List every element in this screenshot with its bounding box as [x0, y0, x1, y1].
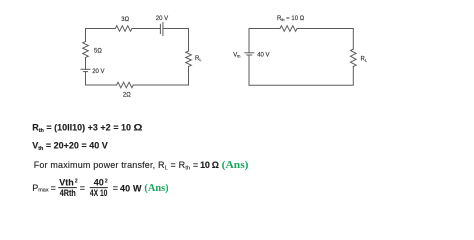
equation line 4: Pmax: [32, 177, 168, 198]
wire: right circuit top-left segment: [249, 29, 280, 53]
svg-text:40 W: 40 W: [120, 183, 142, 193]
equation line 3: For maximum power transfer: [34, 160, 249, 172]
svg-text:RL: RL: [361, 56, 367, 62]
wire: left circuit top-right segment: [163, 29, 189, 52]
svg-text:4Rth: 4Rth: [60, 188, 76, 198]
wire: left circuit right-bottom segment: [133, 67, 188, 86]
svg-text:For maximum power transfer, RL: For maximum power transfer, RL = Rth =: [34, 160, 199, 172]
svg-text:=: =: [51, 183, 56, 193]
svg-text:(Ans): (Ans): [144, 183, 168, 194]
svg-text:Rth = (10II10) +3 +2 = 10 Ω: Rth = (10II10) +3 +2 = 10 Ω: [32, 122, 142, 134]
wire: right circuit top-right segment: [297, 29, 353, 50]
svg-text:Pmax: Pmax: [32, 183, 49, 194]
resistor Rth (top wire, right circuit): [280, 26, 297, 32]
resistor 2ohm (bottom wire, left circuit): [117, 82, 134, 88]
svg-text:10 Ω: 10 Ω: [200, 160, 219, 170]
svg-text:2Ω: 2Ω: [123, 93, 131, 99]
svg-text:=: =: [113, 183, 118, 193]
svg-text:4X 10: 4X 10: [90, 188, 108, 198]
wire: left circuit top-left segment: [86, 29, 116, 42]
wire: right circuit right-bottom segment: [249, 55, 353, 85]
svg-text:20 V: 20 V: [92, 69, 104, 75]
resistor RL (right side, left circuit): [186, 51, 192, 67]
battery Vth 40V (left side, right circuit): [245, 53, 254, 55]
svg-text:Rth = 10 Ω: Rth = 10 Ω: [277, 16, 305, 22]
fraction 2 bar: [90, 187, 108, 189]
svg-text:5Ω: 5Ω: [94, 48, 102, 54]
wire: left circuit left middle segment: [85, 58, 87, 70]
battery 20V (left side, left circuit): [81, 69, 90, 71]
svg-text:20 V: 20 V: [156, 16, 168, 22]
svg-text:=: =: [80, 183, 85, 193]
resistor 3ohm (top wire, left circuit): [115, 26, 131, 32]
svg-text:(Ans): (Ans): [222, 160, 249, 171]
svg-text:RL: RL: [195, 56, 201, 62]
fraction 1 bar: [58, 187, 77, 189]
wire: left circuit bottom-left segment: [86, 72, 117, 85]
svg-text:40 V: 40 V: [257, 53, 269, 59]
svg-text:3Ω: 3Ω: [121, 17, 129, 23]
svg-text:Vth2: Vth2: [59, 177, 78, 187]
resistor 5ohm (left side, left circuit): [83, 42, 89, 58]
wire: left circuit top middle segment: [132, 28, 160, 30]
resistor RL (right side, right circuit): [351, 49, 357, 67]
svg-text:402: 402: [94, 177, 108, 187]
battery 20V (top wire, left circuit): [160, 22, 163, 35]
svg-text:Vth = 20+20 = 40 V: Vth = 20+20 = 40 V: [32, 141, 108, 153]
svg-text:Vth: Vth: [233, 53, 240, 59]
